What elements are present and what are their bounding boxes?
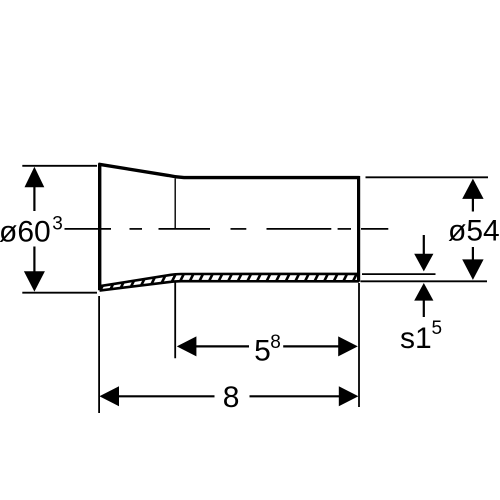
- tube body top edge (tapered then straight): [98, 164, 359, 177]
- wall section band: top edge: [100, 274, 360, 286]
- dim ø60: down arrow: [24, 271, 45, 291]
- dim 58: line segments: [196, 345, 250, 347]
- dim s1: down arrow: [414, 254, 433, 272]
- svg-text:5: 5: [432, 318, 443, 339]
- svg-text:8: 8: [270, 332, 281, 353]
- dim ø60: top extension line: [22, 165, 97, 167]
- dim 8: left extension line: [98, 296, 100, 413]
- svg-text:s1: s1: [400, 322, 432, 355]
- wall section band: bottom edge: [100, 281, 360, 290]
- dim 58: left extension line lower part: [174, 282, 176, 359]
- svg-text:3: 3: [52, 214, 63, 235]
- dim ø60: up arrow: [25, 167, 45, 188]
- svg-text:ø60: ø60: [0, 216, 51, 249]
- dim 8: line segments: [118, 395, 215, 397]
- dim ø54: stem segments: [472, 198, 474, 212]
- dim s1: wall-top extension line: [362, 273, 436, 275]
- dim ø54: bottom extension line: [361, 280, 488, 282]
- centerline (dash-dot): [65, 228, 389, 230]
- svg-text:8: 8: [223, 381, 240, 414]
- dim ø54: up arrow: [462, 179, 483, 199]
- svg-text:5: 5: [254, 335, 271, 368]
- dim 58: right arrow: [338, 336, 358, 356]
- dim ø54: down arrow: [462, 259, 483, 280]
- dim ø54: top extension line: [366, 176, 489, 178]
- dim 58: left extension line upper part: [174, 179, 176, 229]
- tube body right edge: [357, 176, 360, 282]
- dim s1: up arrow: [414, 283, 433, 301]
- dim 58: left arrow: [177, 336, 197, 356]
- dim 8: right arrow: [339, 386, 359, 406]
- dim s1: lower stem: [423, 300, 425, 317]
- svg-text:ø54: ø54: [448, 214, 500, 247]
- dim 8: right extension line (shared with 58): [358, 283, 360, 407]
- tube body left edge: [98, 163, 101, 290]
- wall section band: hatch: [98, 267, 360, 295]
- dim s1: upper stem: [423, 235, 425, 255]
- dim ø60: stem segments: [33, 187, 35, 212]
- dim 8: left arrow: [99, 386, 119, 406]
- dim ø60: bottom extension line: [22, 292, 97, 294]
